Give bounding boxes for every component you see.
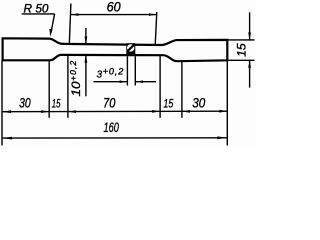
svg-text:30: 30 bbox=[19, 96, 31, 111]
chain dimension line 30/15/70/15/30 bbox=[2, 96, 227, 114]
svg-text:3+0,2: 3+0,2 bbox=[97, 66, 125, 80]
label R50 with leader arrow bbox=[22, 2, 55, 37]
dimension 10+0,2 (gauge width, rotated) bbox=[68, 28, 87, 97]
svg-text:+0,2: +0,2 bbox=[68, 60, 78, 81]
dimension 60 (top) bbox=[69, 0, 157, 45]
svg-text:10: 10 bbox=[69, 81, 83, 96]
dimension 3+0,2 (thickness at section) bbox=[94, 56, 157, 85]
dimension 15 (grip width, right, rotated) bbox=[227, 12, 254, 87]
svg-text:15: 15 bbox=[163, 98, 173, 111]
svg-text:160: 160 bbox=[104, 120, 120, 135]
svg-text:30: 30 bbox=[192, 96, 205, 111]
svg-text:60: 60 bbox=[107, 0, 121, 14]
svg-text:70: 70 bbox=[103, 96, 116, 111]
dimension 160 (overall) bbox=[2, 120, 227, 140]
extension lines for bottom chain bbox=[2, 55, 227, 145]
section mark: black square with white hatch bbox=[126, 43, 135, 56]
svg-text:15: 15 bbox=[52, 98, 61, 111]
svg-text:15: 15 bbox=[235, 43, 249, 57]
specimen outline (dog-bone tensile test bar) bbox=[3, 38, 228, 61]
